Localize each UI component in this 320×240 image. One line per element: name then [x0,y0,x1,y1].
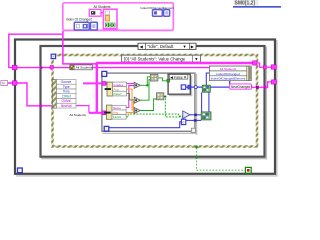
svg-text:NewVal: NewVal [61,104,72,108]
svg-text:NewChanged?: NewChanged? [231,85,252,89]
svg-text:Avg: Avg [113,111,118,115]
svg-text:Index Of Changed: Index Of Changed [66,18,92,22]
svg-text:CtlRef: CtlRef [62,94,71,98]
svg-text:▼: ▼ [183,44,187,49]
svg-text:OldVal: OldVal [62,99,72,103]
svg-text:Field1: Field1 [113,115,122,119]
svg-text:Time: Time [63,90,70,94]
svg-text:▼: ▼ [194,57,198,62]
svg-text:Source: Source [61,80,71,84]
svg-text:0: 0 [183,121,185,125]
svg-text:▼: ▼ [183,75,187,79]
svg-text:All Students: All Students [76,66,93,70]
svg-text:SM0[1,2]: SM0[1,2] [235,0,256,6]
svg-text:Avg: Avg [113,87,118,91]
svg-text:All Students: All Students [220,67,237,71]
svg-text:◀ False: ◀ False [170,75,183,79]
svg-text:IndexOfChanged: IndexOfChanged [216,72,240,76]
svg-text:IndexOfChangedElement: IndexOfChangedElement [211,77,246,81]
svg-text:All Students: All Students [70,113,87,117]
svg-text:"Idle", Default: "Idle", Default [148,44,175,49]
svg-text:Name: Name [113,106,121,110]
svg-text:[0] "All Students": Value Chan: [0] "All Students": Value Change [124,57,186,62]
svg-text:TF: TF [2,82,6,86]
svg-text:Type: Type [63,85,70,89]
svg-text:Pass?: Pass? [113,92,122,96]
svg-text:Grades: Grades [113,83,123,87]
